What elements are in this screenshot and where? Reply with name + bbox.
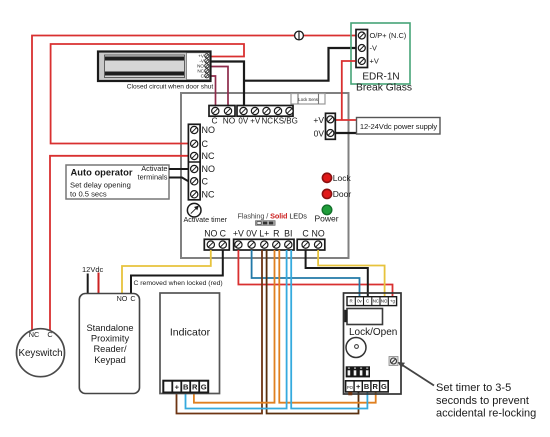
svg-text:-V: -V <box>370 44 377 53</box>
svg-text:+V: +V <box>233 228 244 238</box>
svg-text:0V: 0V <box>238 117 248 126</box>
svg-text:+V: +V <box>250 117 261 126</box>
svg-text:R: R <box>373 382 379 391</box>
svg-text:+: + <box>175 382 180 391</box>
wire maroon maglock NO to board NO <box>210 67 229 106</box>
LED power <box>314 205 338 223</box>
wire orange R to indicator R <box>194 250 275 403</box>
svg-text:Standalone: Standalone <box>86 323 133 333</box>
svg-text:C: C <box>220 228 227 238</box>
auto operator box <box>66 164 169 199</box>
svg-text:NO: NO <box>117 294 128 303</box>
svg-text:+V: +V <box>313 115 324 125</box>
svg-text:EDR-1N: EDR-1N <box>362 72 399 83</box>
wire black board C to reader C <box>131 250 223 294</box>
svg-text:0V: 0V <box>314 128 325 138</box>
board terminal strip 0V +V NC KS/BG <box>237 106 298 126</box>
svg-text:Indicator: Indicator <box>170 327 211 339</box>
svg-text:Keyswitch: Keyswitch <box>18 348 62 359</box>
svg-text:NO: NO <box>204 228 217 238</box>
svg-text:NC: NC <box>29 330 40 339</box>
brown stub under first lock terminal <box>348 392 352 395</box>
wire red keyswitch C to relay NC <box>50 156 188 331</box>
svg-text:Closed circuit when door shut: Closed circuit when door shut <box>127 83 214 90</box>
svg-text:0V: 0V <box>246 228 257 238</box>
set timer note with arrow <box>398 362 537 420</box>
svg-text:Proximity: Proximity <box>91 334 130 344</box>
activate timer dial <box>184 203 228 224</box>
lock bottom strip <box>346 381 389 392</box>
board side strip +V 0V <box>313 113 335 139</box>
svg-text:L+: L+ <box>259 228 269 238</box>
wire cyan BI to indicator B <box>186 250 287 409</box>
svg-text:Keypad: Keypad <box>94 355 126 365</box>
svg-text:C: C <box>202 177 209 187</box>
svg-text:NO: NO <box>223 116 236 126</box>
svg-text:Set timer to 3-5: Set timer to 3-5 <box>436 382 511 394</box>
svg-text:C: C <box>47 330 52 339</box>
board bottom strip NO C (reader relay) <box>204 228 229 250</box>
svg-text:Set delay opening: Set delay opening <box>70 180 131 189</box>
wire yellow board NO to lock NO <box>318 250 385 297</box>
svg-text:Break Glass: Break Glass <box>356 83 412 94</box>
svg-text:seconds to prevent: seconds to prevent <box>436 395 529 407</box>
svg-text:terminals: terminals <box>138 173 168 182</box>
indicator unit <box>160 293 220 394</box>
wire black board C to lock C <box>306 250 368 297</box>
svg-text:G: G <box>201 382 207 391</box>
svg-text:O/P+ (N.C): O/P+ (N.C) <box>370 31 407 40</box>
wire black board 0V to power supply <box>335 132 356 134</box>
wire orange R to lock R <box>279 250 375 403</box>
LED door <box>322 189 351 199</box>
timer adjust screw <box>389 357 398 366</box>
proximity reader <box>79 294 139 394</box>
board bottom strip C NO (lock relay) <box>297 228 325 250</box>
svg-text:C: C <box>202 139 209 149</box>
keyswitch <box>17 329 65 377</box>
power supply PSU <box>357 118 441 135</box>
flashing solid LEDs legend <box>238 212 308 226</box>
svg-text:Flashing / Solid LEDs: Flashing / Solid LEDs <box>238 212 308 221</box>
lock sense jumper block <box>291 94 325 105</box>
svg-text:R: R <box>350 299 353 304</box>
board terminal strip C NO (maglock relay) <box>209 106 236 126</box>
svg-text:B: B <box>183 382 189 391</box>
svg-text:NC: NC <box>373 299 379 304</box>
svg-text:PO: PO <box>347 385 354 390</box>
svg-text:+g: +g <box>390 299 396 304</box>
svg-text:Auto operator: Auto operator <box>71 167 133 178</box>
svg-text:Activate timer: Activate timer <box>184 215 228 224</box>
board bottom strip +V 0V L+ R BI <box>233 228 294 250</box>
lock/open unit <box>344 293 402 395</box>
svg-text:NO: NO <box>202 125 216 135</box>
svg-text:to 0.5 secs: to 0.5 secs <box>70 189 107 198</box>
svg-text:C: C <box>130 294 135 303</box>
svg-text:G: G <box>381 382 387 391</box>
wire black auto operator to C <box>169 178 188 182</box>
break glass EDR-1N <box>351 23 412 94</box>
svg-text:12-24Vdc power supply: 12-24Vdc power supply <box>360 122 438 131</box>
svg-text:NC: NC <box>262 117 274 126</box>
wire red keyswitch NC to break glass O/P+ <box>32 36 356 332</box>
wire brown L+ to indicator + <box>177 250 263 414</box>
svg-text:R: R <box>273 228 279 238</box>
svg-text:C: C <box>212 116 218 126</box>
svg-text:12Vdc: 12Vdc <box>82 265 104 274</box>
wire yellow board NO to reader NO <box>122 250 211 294</box>
svg-text:Lock Sens: Lock Sens <box>298 97 318 102</box>
svg-text:Reader/: Reader/ <box>93 344 126 354</box>
svg-text:C: C <box>366 299 369 304</box>
svg-text:0v: 0v <box>357 299 362 304</box>
svg-text:C: C <box>302 228 309 238</box>
svg-text:NC: NC <box>202 190 215 200</box>
wire blue board 0V to lock 0v <box>252 250 360 297</box>
controller board U1 <box>181 93 349 258</box>
svg-text:+: + <box>356 382 361 391</box>
svg-text:Lock/Open: Lock/Open <box>349 327 397 338</box>
svg-text:+V: +V <box>370 57 379 66</box>
board left strip NO C NC NO C NC <box>188 124 215 200</box>
svg-text:NC: NC <box>202 151 215 161</box>
svg-text:NO: NO <box>381 299 388 304</box>
wire black maglock -V to board 0V and break glass -V <box>210 48 356 106</box>
reader 12Vdc supply wires <box>82 265 104 294</box>
wire red board +V to lock +g <box>238 250 392 297</box>
svg-text:Door: Door <box>333 189 352 199</box>
wire cyan BI to lock B <box>291 250 367 409</box>
wire red break glass +V to board +V and power supply <box>335 61 356 120</box>
svg-text:C removed when locked (red): C removed when locked (red) <box>134 280 223 287</box>
svg-text:B: B <box>364 382 369 391</box>
svg-text:accidental re-locking: accidental re-locking <box>436 408 536 420</box>
svg-text:NO: NO <box>202 164 216 174</box>
wire maroon maglock C to board C <box>210 76 216 106</box>
svg-text:NO: NO <box>311 228 324 238</box>
svg-text:KS/BG: KS/BG <box>273 117 297 126</box>
wire red relay C to maglock +V <box>51 44 244 144</box>
svg-text:R: R <box>192 382 198 391</box>
wire black auto operator to NO <box>169 168 188 170</box>
svg-text:BI: BI <box>284 228 292 238</box>
door monitor symbol <box>295 31 304 40</box>
svg-text:Activate: Activate <box>141 164 167 173</box>
svg-text:Lock: Lock <box>333 173 352 183</box>
maglock ML1 <box>98 52 213 91</box>
wire brown L+ to lock + <box>267 250 359 414</box>
LED lock <box>322 173 351 183</box>
svg-text:Power: Power <box>314 213 338 223</box>
